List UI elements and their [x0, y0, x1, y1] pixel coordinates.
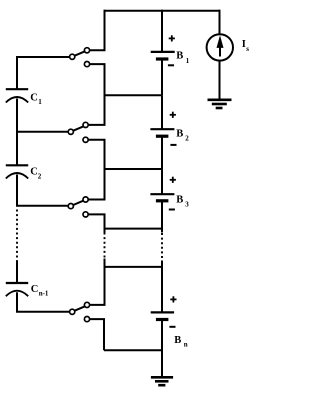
wire S2 lower contact to node 2	[88, 140, 104, 169]
svg-text:1: 1	[186, 57, 190, 65]
switch S4 pole circle	[70, 309, 75, 314]
switch S1 pole circle	[70, 54, 75, 59]
svg-text:C: C	[30, 92, 38, 103]
switch S1 upper contact	[84, 48, 89, 53]
wire B2 to node 2	[161, 136, 163, 169]
wire node n (below Bn)	[104, 349, 162, 351]
wire mid column node2 to S3 upper contact	[88, 169, 104, 200]
current source arrow	[217, 35, 224, 56]
minus sign B1	[168, 64, 174, 66]
svg-text:I: I	[242, 39, 246, 50]
label C2	[30, 167, 42, 181]
wire battery column node n-1 to Bn	[161, 261, 163, 313]
svg-text:C: C	[30, 167, 38, 178]
minus sign Bn	[169, 326, 175, 328]
current source Is	[207, 34, 233, 60]
svg-text:n: n	[184, 341, 188, 349]
wire Cn-1 top lead	[16, 261, 18, 284]
wire mid column dotted continuation	[104, 233, 106, 259]
wire battery column top (rail to B1)	[161, 10, 163, 52]
wire top rail	[104, 10, 221, 12]
switch S2 pole circle	[68, 129, 73, 134]
wire C1 top lead and to switch S1 pole	[17, 57, 69, 89]
svg-text:2: 2	[38, 173, 42, 181]
switch S3 upper contact	[83, 197, 88, 202]
ground under Bn	[151, 377, 173, 385]
switch S4 upper contact	[84, 302, 89, 307]
svg-text:B: B	[176, 128, 183, 139]
switch S1 blade	[75, 51, 85, 55]
wire S1 lower contact to node 1	[90, 64, 105, 95]
svg-text:B: B	[176, 195, 183, 206]
svg-text:n-1: n-1	[39, 289, 49, 297]
wire current source bottom lead	[219, 60, 221, 99]
switch S1 lower contact	[84, 62, 89, 67]
wire node 1 to B2	[161, 95, 163, 129]
wire battery column dotted continuation	[161, 233, 163, 261]
switch S3 blade	[73, 201, 83, 205]
wire node 1 (B1/B2)	[104, 94, 163, 96]
label Bn	[174, 335, 188, 348]
wire B3 down to node 3	[161, 201, 163, 233]
switch S4 blade	[75, 306, 85, 310]
label C1	[30, 92, 42, 106]
minus sign B2	[170, 144, 176, 146]
switch S3 pole circle	[68, 204, 73, 209]
ground under current source	[208, 100, 232, 108]
switch S2 blade	[73, 126, 83, 130]
wire current source top lead	[219, 10, 221, 35]
capacitor Cn-1	[6, 283, 28, 296]
svg-text:s: s	[246, 45, 249, 53]
switch S2 lower contact	[83, 137, 88, 142]
wire from top rail down to switch S1 upper contact	[90, 10, 105, 51]
battery B3	[150, 194, 174, 201]
capacitor C1	[6, 89, 28, 102]
switch S2 upper contact	[83, 122, 88, 127]
battery B1	[151, 52, 175, 59]
wire C1 bottom to switch S2 pole wire	[16, 99, 18, 166]
svg-text:1: 1	[38, 98, 42, 106]
wire node n-1	[104, 266, 163, 268]
wire mid column to node n-1 and S4 upper contact	[90, 259, 105, 305]
plus sign B2	[170, 112, 176, 118]
label B2	[176, 128, 189, 142]
capacitor C2	[6, 165, 28, 178]
plus sign B3	[170, 177, 176, 183]
svg-text:C: C	[31, 284, 39, 295]
wire mid column node1 to S2 upper contact	[88, 95, 104, 125]
wire Cn-1 bottom to switch S4 pole wire	[17, 292, 69, 312]
plus sign Bn	[170, 296, 176, 302]
wire node 3 (B3/B4)	[104, 228, 163, 230]
wire S4 lower contact to node n	[90, 319, 104, 350]
svg-text:3: 3	[185, 201, 189, 209]
label B3	[176, 195, 189, 209]
wire node 2 to B3	[161, 169, 163, 194]
wire S3 lower contact through node 3	[88, 214, 104, 232]
wire C2 bottom to switch S3 pole wire	[16, 175, 18, 207]
minus sign B3	[169, 209, 175, 211]
battery B2	[150, 129, 174, 136]
plus sign B1	[169, 35, 175, 41]
label Cn-1	[31, 284, 49, 298]
wire switch S2 pole wire	[16, 131, 68, 133]
wire B1 to node 1	[161, 59, 163, 95]
label Is	[242, 39, 250, 53]
svg-text:B: B	[176, 51, 183, 62]
battery Bn	[151, 312, 174, 319]
switch S3 lower contact	[83, 212, 88, 217]
svg-text:2: 2	[185, 135, 189, 143]
switch S4 lower contact	[84, 317, 89, 322]
svg-text:B: B	[174, 335, 181, 346]
wire left column dotted continuation	[16, 210, 18, 261]
wire switch S3 pole wire	[16, 205, 68, 207]
wire node 2 (B2/B3)	[104, 168, 163, 170]
label B1	[176, 51, 190, 65]
wire Bn to ground	[161, 320, 163, 377]
